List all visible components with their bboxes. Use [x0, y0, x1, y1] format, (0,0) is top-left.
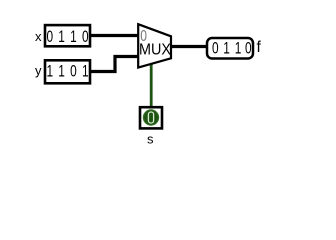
svg-text:x: x: [35, 29, 42, 44]
mux input 0 pin label (gray): [140, 27, 147, 45]
wire x box to MUX input 0: [90, 34, 139, 37]
input x label: [35, 29, 42, 44]
input s label: [147, 132, 154, 147]
wire MUX output to f box: [172, 45, 207, 48]
svg-text:f: f: [257, 39, 262, 56]
input y label: [35, 63, 42, 78]
wire y box to MUX input 1, horizontal segment into MUX: [114, 55, 140, 58]
svg-text:1: 1: [46, 63, 53, 81]
svg-text:0: 0: [212, 40, 219, 58]
wire y box to MUX input 1, horizontal segment from box: [90, 70, 117, 73]
input switch s box: [140, 107, 162, 128]
wire y box to MUX input 1, vertical riser segment: [113, 55, 116, 73]
svg-text:0: 0: [46, 28, 53, 46]
switch s toggle: green disc showing value 0: [143, 110, 158, 125]
output f label: [257, 39, 262, 56]
svg-text:1: 1: [82, 63, 89, 81]
svg-text:0: 0: [82, 28, 89, 46]
svg-text:s: s: [147, 132, 154, 147]
mux label MUX: [139, 41, 171, 59]
mux U1 body (trapezoid): [138, 24, 171, 67]
svg-text:0: 0: [70, 63, 77, 81]
svg-text:MUX: MUX: [139, 41, 171, 59]
svg-text:1: 1: [70, 28, 77, 46]
wire MUX select (green, value 0) from MUX bottom to s switch: [150, 63, 153, 107]
output register f (value 0110, rounded): [207, 38, 253, 59]
svg-text:1: 1: [58, 28, 65, 46]
input register y (value 1101): [45, 60, 90, 83]
input register x (value 0110): [45, 25, 90, 46]
svg-text:1: 1: [235, 40, 242, 58]
svg-text:y: y: [35, 63, 42, 78]
svg-text:1: 1: [58, 63, 65, 81]
svg-text:1: 1: [223, 40, 230, 58]
svg-text:0: 0: [245, 40, 252, 58]
